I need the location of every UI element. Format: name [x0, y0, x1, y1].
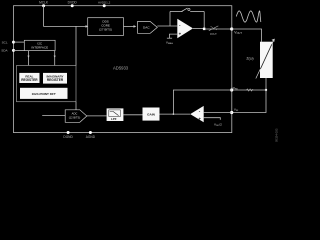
chip border AD5933 — [14, 6, 232, 133]
pin RFB — [230, 88, 233, 91]
svg-text:MCLK: MCLK — [39, 1, 49, 5]
LPF block — [107, 108, 124, 121]
Z diagonal arrow — [256, 69, 261, 79]
svg-text:REGISTER: REGISTER — [21, 78, 38, 82]
svg-text:(27 BITS): (27 BITS) — [99, 27, 112, 31]
svg-text:05324-033: 05324-033 — [275, 128, 279, 142]
svg-text:Z(ω): Z(ω) — [246, 56, 253, 60]
wire DDS to DAC with arrow — [124, 25, 135, 27]
switch blade — [182, 8, 188, 11]
ROUT variable annotation — [209, 26, 219, 36]
pin VIN — [230, 111, 233, 114]
svg-text:INTERFACE: INTERFACE — [31, 45, 48, 49]
wire LPF to ADC — [87, 115, 107, 117]
junction square — [203, 28, 206, 31]
svg-text:AD5933: AD5933 — [113, 66, 129, 71]
svg-text:DAC: DAC — [143, 26, 150, 30]
wire SCL to I2C box — [14, 41, 25, 43]
wire RX amp out to gain — [160, 113, 191, 115]
svg-text:SDA: SDA — [1, 49, 8, 53]
DDS core block — [88, 18, 124, 36]
svg-text:+: + — [198, 117, 201, 122]
svg-text:ROUT: ROUT — [210, 33, 217, 36]
svg-text:VOUT: VOUT — [234, 30, 242, 35]
VDD/2 terminal — [204, 118, 222, 127]
wire I2C to DFT block (right, with down arrow) — [54, 51, 56, 66]
wire container to ADC — [75, 102, 77, 110]
TX amp output wire — [193, 27, 203, 29]
svg-text:(12 BITS): (12 BITS) — [69, 115, 81, 119]
impedance Z box — [260, 42, 273, 78]
op-amp TX — [177, 19, 193, 39]
wire junction down to VIN — [232, 90, 266, 113]
wire DAC to amp — [157, 25, 177, 27]
DFT container block — [17, 66, 77, 102]
gain block — [143, 108, 160, 121]
svg-text:GAIN: GAIN — [147, 112, 156, 116]
pin AGND — [89, 131, 92, 134]
svg-text:1024-POINT DFT: 1024-POINT DFT — [32, 92, 56, 96]
svg-text:AVDD1,2: AVDD1,2 — [98, 1, 111, 5]
feedback switch loop — [170, 8, 204, 28]
pin DGND — [67, 131, 70, 134]
wire VIN to RX amp — [204, 112, 232, 114]
wire VOUT to Z — [232, 29, 262, 42]
svg-text:DGND: DGND — [63, 135, 73, 139]
DAC — [138, 22, 158, 34]
wire junction to RFB pin with resistor — [232, 89, 266, 91]
wire MCLK branch down to DFT container / ADC — [75, 26, 77, 65]
wire gain to LPF — [123, 114, 142, 116]
1024-point DFT — [20, 88, 68, 99]
wire MCLK down and to DDS core — [44, 6, 86, 27]
svg-text:AGND: AGND — [86, 135, 96, 139]
svg-text:REGISTER: REGISTER — [47, 78, 64, 82]
wire SDA to I2C box — [14, 49, 25, 51]
wire to VOUT pin — [205, 28, 231, 30]
svg-text:DVDD: DVDD — [68, 1, 78, 5]
op-amp RX (points left) — [190, 106, 204, 122]
wire RFB internal to output junction — [173, 90, 231, 114]
svg-text:LPF: LPF — [111, 117, 117, 121]
imaginary register — [43, 73, 67, 84]
ADC — [65, 110, 87, 123]
VBIAS terminal — [166, 34, 177, 45]
resistor squiggle on RFB wire — [247, 89, 254, 91]
wire Z bottom to junction — [265, 78, 267, 90]
sine wave symbol — [236, 11, 261, 22]
pin VOUT — [230, 27, 233, 30]
I2C interface block — [24, 40, 55, 50]
node junction — [265, 89, 267, 91]
wire I2C to DFT block (left, with down arrow) — [27, 51, 29, 66]
junction node RFB/output — [173, 113, 175, 115]
svg-text:+: + — [179, 31, 182, 36]
svg-text:ADC: ADC — [72, 112, 78, 116]
svg-text:SCL: SCL — [2, 40, 8, 44]
real register — [19, 73, 39, 83]
ADC left stub wire — [42, 115, 65, 117]
